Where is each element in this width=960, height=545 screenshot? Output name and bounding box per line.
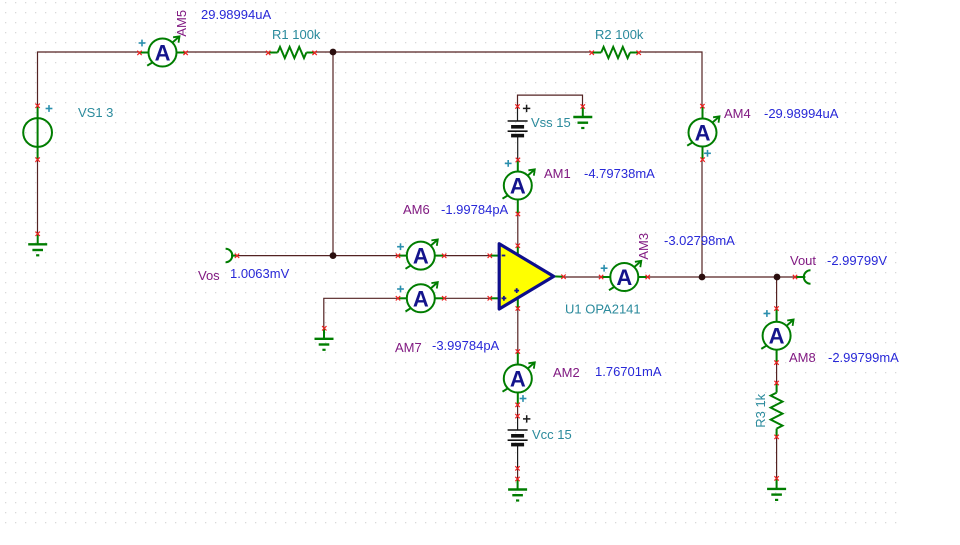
wire: R3 bottom to ground: [776, 437, 778, 479]
wire: feedback node down from R1/R2 junction: [332, 52, 334, 256]
svg-text:AM7: AM7: [395, 340, 422, 355]
terminal Vout: [793, 270, 811, 283]
wire: Vss top loop to ground: [518, 95, 583, 106]
svg-text:1.76701mA: 1.76701mA: [595, 364, 662, 379]
wire: AM7 left to ground corner: [324, 298, 398, 328]
ammeter AM1: [503, 158, 535, 217]
svg-text:29.98994uA: 29.98994uA: [201, 7, 271, 22]
ground (below Vcc): [508, 477, 527, 501]
svg-text:-3.02798mA: -3.02798mA: [664, 233, 735, 248]
wire: AM4 bottom to output junction: [701, 160, 703, 277]
wire: AM2 bottom to Vcc top: [517, 405, 519, 416]
svg-text:Vos: Vos: [198, 268, 220, 283]
ammeter AM3: [599, 261, 650, 291]
ammeter AM4: [687, 104, 719, 162]
wire: Vss battery lead bottom to AM1 top: [517, 136, 519, 160]
ammeter AM7: [396, 282, 447, 312]
svg-text:Vss 15: Vss 15: [531, 115, 571, 130]
svg-text:-29.98994uA: -29.98994uA: [764, 106, 839, 121]
ground (below R3): [767, 476, 786, 500]
junction node R1/R2/feedback: [330, 49, 337, 56]
wire: op-amp output to AM3 left: [564, 276, 602, 278]
op-amp U1: [488, 244, 566, 311]
wire: AM5 right to R1 left: [186, 51, 269, 53]
ammeter AM8: [761, 306, 793, 365]
wire: Vcc battery leads: [517, 416, 519, 430]
wire: VS1 bottom to ground: [37, 160, 39, 234]
ammeter AM6: [396, 239, 447, 269]
battery Vcc 15: [508, 414, 531, 471]
svg-text:R3 1k: R3 1k: [753, 393, 768, 427]
svg-text:-2.99799mA: -2.99799mA: [828, 350, 899, 365]
svg-text:-1.99784pA: -1.99784pA: [441, 202, 509, 217]
wire: Vos terminal to AM6 left: [237, 255, 398, 257]
ground (non-inverting input): [315, 326, 334, 350]
junction node output/AM8: [774, 274, 781, 281]
svg-text:1.0063mV: 1.0063mV: [230, 266, 290, 281]
ammeter AM5: [137, 36, 188, 66]
wire: AM6 right to op-amp inverting input: [444, 255, 490, 257]
svg-text:R2 100k: R2 100k: [595, 27, 644, 42]
wire: Vcc bottom to ground: [517, 468, 519, 479]
svg-text:R1 100k: R1 100k: [272, 27, 321, 42]
junction node feedback/Vos: [330, 252, 337, 259]
wire: Vout junction down to AM8 top: [776, 277, 778, 309]
svg-text:AM3: AM3: [636, 233, 651, 260]
svg-text:VS1 3: VS1 3: [78, 105, 113, 120]
resistor R2 100k: [590, 47, 641, 58]
resistor R1 100k: [266, 47, 317, 58]
terminal Vos: [226, 249, 240, 262]
svg-text:-2.99799V: -2.99799V: [827, 253, 887, 268]
resistor R3 1k: [771, 381, 783, 439]
battery Vss 15: [508, 104, 531, 135]
wire: R2 right to AM4 top: [639, 52, 702, 106]
ammeter AM2: [503, 349, 535, 407]
wire: Vss battery lead top: [517, 107, 519, 122]
svg-text:U1 OPA2141: U1 OPA2141: [565, 302, 641, 317]
svg-text:AM6: AM6: [403, 202, 430, 217]
wire: AM3 right to Vout terminal: [648, 276, 795, 278]
svg-text:AM2: AM2: [553, 365, 580, 380]
svg-text:-4.79738mA: -4.79738mA: [584, 166, 655, 181]
wire: AM1 bottom to op-amp top: [517, 214, 519, 246]
svg-text:Vcc 15: Vcc 15: [532, 427, 572, 442]
voltage source VS1: [23, 104, 52, 162]
wire: AM8 bottom to R3 top: [776, 363, 778, 383]
wire: op-amp bottom to AM2 top: [517, 309, 519, 352]
wire: VS1 top to AM5 left (top-left corner): [38, 52, 140, 106]
wire: AM7 right to op-amp non-inverting input: [444, 297, 490, 299]
svg-text:AM8: AM8: [789, 350, 816, 365]
junction node output/AM4: [699, 274, 706, 281]
wire: R1 right to R2 left: [315, 51, 592, 53]
svg-text:Vout: Vout: [790, 253, 816, 268]
svg-text:AM4: AM4: [724, 106, 751, 121]
svg-text:-3.99784pA: -3.99784pA: [432, 338, 500, 353]
ground (right of Vss): [573, 104, 592, 128]
svg-text:AM1: AM1: [544, 166, 571, 181]
ground (below VS1): [28, 232, 47, 256]
svg-text:AM5: AM5: [174, 10, 189, 37]
